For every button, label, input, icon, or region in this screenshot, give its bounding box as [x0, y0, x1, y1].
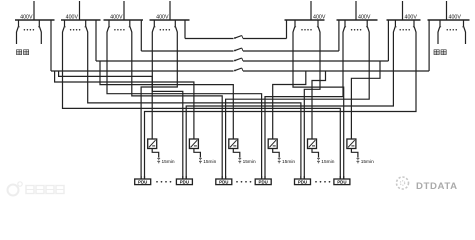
battery GB4 (15min)	[278, 158, 281, 163]
svg-text:15min: 15min	[203, 159, 216, 165]
PDU box PDU6	[334, 179, 350, 185]
label: loads under bus 1	[17, 50, 29, 55]
breaker: bus 2 left feeder breaker	[64, 20, 66, 26]
wire: feeds into PDU5	[301, 176, 304, 179]
label: loads under bus 8	[434, 50, 446, 55]
svg-text:15min: 15min	[243, 159, 256, 165]
breaker: bus 7 left feeder breaker	[394, 20, 396, 26]
dots: more breakers on bus 1	[24, 29, 35, 31]
UPS U3 (static switch box)	[229, 139, 238, 149]
wire: UPS U6 output to battery branch	[351, 149, 358, 158]
battery GB1 (15min)	[157, 158, 160, 163]
svg-text:400V: 400V	[358, 14, 371, 20]
dots: more breakers on bus 2	[70, 29, 81, 31]
UPS U5 (static switch box)	[308, 139, 317, 149]
svg-text:PDU: PDU	[138, 180, 147, 185]
switch: tie switch on tie line bus4-bus5	[234, 36, 243, 39]
svg-text:400V: 400V	[405, 14, 418, 20]
wire: tie tap to UPS4 input	[273, 71, 306, 139]
dots: more PDUs	[315, 181, 330, 183]
busbar 400V bus 4	[150, 19, 190, 21]
wire: feeds into PDU4	[262, 176, 265, 179]
breaker: bus 6 left feeder breaker	[344, 20, 346, 26]
svg-text:15min: 15min	[282, 159, 295, 165]
dots: more breakers on bus 4	[160, 29, 171, 31]
wire: incoming feeders to 400V buses	[34, 1, 447, 20]
wire: bus 5 breaker to PDU5 feed B	[304, 33, 320, 179]
breaker: bus 4 right feeder breaker	[174, 20, 176, 26]
svg-text:400V: 400V	[449, 14, 462, 20]
wire: UPS U3 output to battery branch	[233, 149, 240, 158]
busbar 400V bus 2	[61, 19, 101, 21]
busbar 400V bus 3	[104, 19, 144, 21]
wire: bus 4 breaker to PDU2 feed A	[152, 33, 183, 179]
wire: tie tap to UPS6 input	[351, 61, 380, 139]
switch: tie switch on tie line bus1-bus8	[234, 68, 243, 71]
wire: bus 6 breaker to PDU4 feed B	[265, 33, 343, 179]
breaker: bus 8 left feeder breaker	[439, 20, 441, 26]
busbar 400V bus 5	[285, 19, 325, 21]
breaker: bus 4 left feeder breaker	[153, 20, 155, 26]
wire: UPS U1 output to battery branch	[152, 149, 159, 158]
svg-text:PDU: PDU	[337, 180, 346, 185]
battery GB6 (15min)	[357, 158, 360, 163]
svg-text:400V: 400V	[66, 14, 79, 20]
svg-text:DTDATA: DTDATA	[416, 181, 458, 192]
svg-text:PDU: PDU	[180, 180, 189, 185]
busbar 400V bus 8	[428, 19, 470, 21]
wire: tie line bus4-bus5	[185, 20, 287, 39]
PDU box PDU3	[216, 179, 232, 185]
dots: more PDUs	[236, 181, 251, 183]
wire: feeds into PDU2	[183, 176, 186, 179]
breaker: bus 7 right feeder breaker	[413, 20, 415, 26]
wire: UPS U4 output to battery branch	[273, 149, 280, 158]
watermark: DTDATA logo	[397, 177, 409, 189]
dots: more breakers on bus 3	[114, 29, 125, 31]
svg-text:PDU: PDU	[219, 180, 228, 185]
wire: bus 4 breaker to PDU1 feed A	[141, 33, 177, 179]
wire: tie line bus1-bus8	[51, 20, 429, 71]
wire: feeds into PDU1	[141, 176, 144, 179]
svg-text:PDU: PDU	[298, 180, 307, 185]
wire: UPS U2 output to battery branch	[194, 149, 201, 158]
wire: tie tap to UPS1 input	[59, 71, 153, 139]
dots: more breakers on bus 5	[301, 29, 312, 31]
wire: tie tap to UPS2 input	[55, 71, 194, 139]
PDU box PDU1	[135, 179, 151, 185]
breaker: bus 3 left feeder breaker	[108, 20, 110, 26]
switch: tie switch on tie line bus3-bus6	[234, 48, 243, 51]
svg-text:400V: 400V	[313, 14, 326, 20]
wire: feeds into PDU6	[340, 176, 343, 179]
PDU box PDU5	[295, 179, 311, 185]
breaker: bus 6 right feeder breaker	[366, 20, 368, 26]
dots: more PDUs	[156, 181, 171, 183]
PDU box PDU2	[176, 179, 192, 185]
busbar 400V bus 7	[387, 19, 421, 21]
wire: bus 7 breaker to PDU2 feed B	[186, 33, 393, 179]
svg-text:15min: 15min	[162, 159, 175, 165]
svg-text:PDU: PDU	[259, 180, 268, 185]
wire: bus 3 breaker to PDU3 feed A	[132, 33, 222, 179]
wire: bus 3 breaker to PDU4 feed A	[107, 33, 262, 179]
UPS U4 (static switch box)	[268, 139, 277, 149]
switch: tie switch on tie line bus2-bus7	[234, 58, 243, 61]
UPS U6 (static switch box)	[347, 139, 356, 149]
breaker: bus 3 right feeder breaker	[129, 20, 131, 26]
UPS U1 (static switch box)	[148, 139, 157, 149]
UPS U2 (static switch box)	[189, 139, 198, 149]
battery GB2 (15min)	[199, 158, 202, 163]
svg-text:15min: 15min	[321, 159, 334, 165]
wire: tie line bus3-bus6	[141, 20, 339, 51]
wire: bus 6 breaker to PDU3 feed B	[226, 33, 370, 179]
wire: tie tap to UPS5 input	[312, 71, 326, 139]
wire: bus 5 breaker to PDU6 feed B	[293, 33, 344, 179]
wire: bus 2 breaker to PDU5 feed A	[88, 33, 301, 179]
wire: tie tap to UPS3 input	[100, 61, 233, 139]
breaker: bus 5 left feeder breaker	[294, 20, 296, 26]
wire: feeds into PDU3	[222, 176, 225, 179]
dots: more breakers on bus 7	[399, 29, 410, 31]
PDU box PDU4	[255, 179, 271, 185]
battery GB3 (15min)	[238, 158, 241, 163]
wire: bus 2 breaker to PDU6 feed A	[63, 33, 341, 179]
breaker: bus 1 left feeder breaker	[18, 20, 20, 26]
wire: bus 7 breaker to PDU1 feed B	[145, 33, 417, 179]
dots: more breakers on bus 8	[447, 29, 458, 31]
wire: UPS U5 output to battery branch	[312, 149, 319, 158]
svg-text:400V: 400V	[110, 14, 123, 20]
svg-text:400V: 400V	[156, 14, 169, 20]
svg-text:400V: 400V	[20, 14, 33, 20]
watermark: faint bottom-left logo	[8, 182, 65, 196]
battery GB5 (15min)	[317, 158, 320, 163]
breaker: bus 5 right feeder breaker	[317, 20, 319, 26]
breaker: bus 8 right feeder breaker	[463, 20, 465, 26]
wire: tie line bus2-bus7	[96, 20, 388, 61]
dots: more breakers on bus 6	[351, 29, 362, 31]
breaker: bus 1 right feeder breaker	[38, 20, 40, 26]
svg-text:15min: 15min	[361, 159, 374, 165]
breaker: bus 2 right feeder breaker	[85, 20, 87, 26]
busbar 400V bus 6	[337, 19, 378, 21]
busbar 400V bus 1	[15, 19, 55, 21]
